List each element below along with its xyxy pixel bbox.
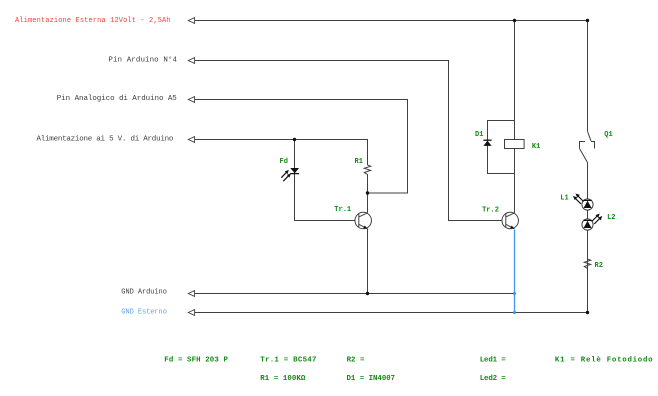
relay coil K1 (505, 140, 525, 149)
node arrow Pin4 (188, 58, 194, 64)
svg-text:R2: R2 (595, 262, 603, 270)
svg-text:K1: K1 (532, 143, 540, 151)
svg-text:Led1 =: Led1 = (480, 357, 507, 365)
svg-text:L1: L1 (560, 194, 568, 202)
node arrow GND Esterno (188, 310, 194, 316)
wire Q1 column top (587, 21, 589, 132)
wire D1 loop (488, 121, 515, 174)
resistor R1 (364, 165, 370, 174)
node arrow 5V (188, 137, 194, 143)
LED L1 (573, 194, 593, 211)
wire GND Arduino rail (188, 293, 514, 295)
svg-text:Alimentazione Esterna 12Volt -: Alimentazione Esterna 12Volt - 2,5Ah (15, 17, 171, 25)
node arrow GND Arduino (188, 291, 194, 297)
svg-text:Fd: Fd (280, 158, 288, 166)
wire R1 bottom to Tr1 collector (367, 174, 369, 213)
diode D1 (483, 140, 491, 146)
transistor Tr.1 (355, 212, 372, 229)
svg-text:Tr.1 = BC547: Tr.1 = BC547 (260, 357, 316, 365)
svg-text:R1 = 100KΩ: R1 = 100KΩ (260, 375, 306, 383)
svg-text:GND Arduino: GND Arduino (121, 288, 167, 296)
node junction dot 12V/K1 (513, 19, 516, 22)
svg-text:D1: D1 (475, 131, 483, 139)
wire GND Esterno blue (514, 230, 516, 313)
LED L2 (582, 214, 602, 231)
svg-text:Tr.2: Tr.2 (482, 206, 499, 214)
node arrow 12V (188, 18, 194, 24)
photodiode Fd (281, 168, 299, 181)
node blue junction GND Arduino (513, 292, 516, 295)
svg-text:R1: R1 (355, 158, 363, 166)
wire top rail 12V (188, 20, 587, 22)
node junction dot 5V/Fd (293, 138, 296, 141)
wire K1 column (514, 21, 516, 213)
transistor Tr.2 (502, 212, 519, 229)
wire Pin Analogico rail (188, 100, 407, 194)
svg-text:Tr.1: Tr.1 (334, 206, 351, 214)
wire 5V rail (188, 140, 367, 166)
svg-text:R2 =: R2 = (347, 357, 365, 365)
wire Q1 to GND Esterno (587, 163, 589, 313)
switch Q1 (580, 131, 595, 162)
svg-text:K1 = Relè Fotodiodo: K1 = Relè Fotodiodo (555, 357, 653, 365)
svg-text:D1 = IN4007: D1 = IN4007 (347, 375, 396, 383)
svg-text:Fd = SFH 203 P: Fd = SFH 203 P (164, 357, 228, 365)
node junction dot Tr1/GND (366, 292, 369, 295)
wire Pin Arduino N4 rail (188, 61, 505, 221)
svg-text:GND Esterno: GND Esterno (121, 308, 167, 316)
svg-text:L2: L2 (607, 214, 615, 222)
svg-text:Pin Arduino N°4: Pin Arduino N°4 (108, 56, 177, 65)
wire GND Esterno rail (188, 312, 587, 314)
node arrow PinA5 (188, 97, 194, 103)
svg-text:Alimentazione ai 5 V. di Ardui: Alimentazione ai 5 V. di Arduino (37, 135, 174, 143)
node junction dot R2/GND Esterno (586, 311, 589, 314)
node junction dot 12V/Q1 (586, 19, 589, 22)
node junction dot R1/A5 (366, 191, 369, 194)
wire Tr1 emitter to GND (367, 229, 369, 294)
svg-text:Led2 =: Led2 = (480, 375, 507, 383)
resistor R2 (584, 259, 590, 268)
svg-text:Pin Analogico di Arduino A5: Pin Analogico di Arduino A5 (57, 95, 177, 103)
node blue junction GND Esterno (513, 311, 516, 314)
svg-text:Q1: Q1 (604, 131, 612, 139)
wire Fd column (295, 140, 359, 221)
